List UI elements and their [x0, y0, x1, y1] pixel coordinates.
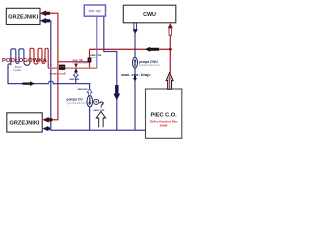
- svg-text:zaw. róż.: zaw. róż.: [93, 108, 105, 112]
- svg-text:zaw. zwr. klap.: zaw. zwr. klap.: [121, 73, 151, 77]
- svg-text:PIEC C.O.: PIEC C.O.: [151, 113, 178, 119]
- svg-text:GRZEJNIKI: GRZEJNIKI: [10, 121, 41, 127]
- svg-text:(wilo/grundfos pdw): (wilo/grundfos pdw): [139, 64, 160, 67]
- svg-text:CWU: CWU: [143, 12, 156, 18]
- svg-text:różnic.: różnic.: [92, 57, 98, 59]
- svg-text:3 pętle: 3 pętle: [13, 68, 22, 72]
- svg-text:z siłownikiem: z siłownikiem: [72, 61, 89, 65]
- svg-text:pompa podł.: pompa podł.: [50, 72, 67, 76]
- svg-text:20kW: 20kW: [160, 124, 168, 128]
- svg-text:zaw.zwr.: zaw.zwr.: [78, 87, 89, 91]
- svg-text:(grundfos/wilo 25-40): (grundfos/wilo 25-40): [67, 102, 90, 105]
- svg-text:PODŁOGÓWKA: PODŁOGÓWKA: [2, 56, 48, 64]
- svg-text:GRZEJNIKI: GRZEJNIKI: [8, 14, 39, 20]
- svg-text:zbw. wył.: zbw. wył.: [89, 9, 102, 13]
- svg-text:zaw.zwr.: zaw.zwr.: [69, 77, 80, 81]
